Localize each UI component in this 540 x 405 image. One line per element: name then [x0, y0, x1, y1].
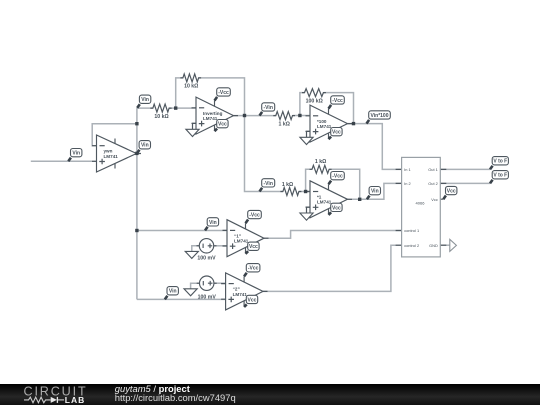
net flag Vin at U4 output	[367, 187, 381, 200]
op-amp U3 x100 LM741	[306, 105, 353, 142]
svg-text:100 mV: 100 mV	[198, 294, 217, 300]
resistor R1 10 kOhm	[150, 104, 171, 120]
ground at U4 + input	[300, 207, 313, 220]
op-amp U4 x1 LM741	[306, 181, 353, 218]
svg-text:LM741: LM741	[104, 154, 119, 159]
net flag Vin at U1 input	[68, 149, 82, 162]
svg-text:In 2: In 2	[404, 181, 411, 186]
svg-text:Vcc: Vcc	[431, 197, 438, 202]
svg-text:-Vin: -Vin	[264, 181, 273, 187]
IC U7 4066 quad bilateral switch	[396, 157, 447, 257]
svg-text:Vin: Vin	[209, 220, 217, 226]
svg-text:V to F: V to F	[493, 173, 507, 179]
svg-text:Vin*100: Vin*100	[371, 113, 389, 119]
resistor R4 100 kOhm feedback	[302, 89, 326, 105]
svg-text:Vin: Vin	[141, 143, 149, 149]
svg-text:10 kΩ: 10 kΩ	[184, 84, 198, 90]
svg-text:LM741: LM741	[234, 239, 249, 244]
svg-text:-Vin: -Vin	[264, 105, 273, 111]
svg-text:1 kΩ: 1 kΩ	[315, 159, 326, 165]
ground at U2 + input	[186, 123, 199, 136]
svg-text:LM741: LM741	[233, 292, 248, 297]
op-amp U6 comparator 2 LM741	[221, 273, 267, 310]
net flag -Vcc at U5 V- pin	[246, 210, 262, 223]
wire R1 to U2 - input	[169, 107, 196, 109]
svg-text:Vcc: Vcc	[447, 189, 456, 195]
svg-text:Vin: Vin	[72, 151, 80, 157]
wire U6 output to 4066 control 2	[263, 245, 402, 291]
wire U2 output to R3	[234, 115, 276, 117]
wire U2 - input up to feedback R2	[176, 78, 183, 108]
wire R6 to U4 output node	[329, 169, 360, 199]
voltage source V1 100 mV	[197, 239, 217, 262]
svg-text:4066: 4066	[416, 201, 426, 206]
wire U4 output to 4066 In 2	[347, 183, 401, 199]
net flag -Vin at U2 output	[260, 103, 275, 116]
ground at U3 + input	[300, 131, 313, 144]
svg-text:Out 2: Out 2	[428, 181, 438, 186]
svg-text:10 kΩ: 10 kΩ	[154, 114, 168, 120]
svg-text:Vcc: Vcc	[332, 130, 341, 136]
svg-text:-Vcc: -Vcc	[332, 98, 343, 104]
wire 4066 Out 2 to V to F flag	[440, 182, 490, 184]
node U2 - input junction	[174, 106, 177, 109]
net flag Vin at R1 input	[137, 95, 151, 108]
svg-text:100 kΩ: 100 kΩ	[306, 98, 323, 104]
svg-text:-Vcc: -Vcc	[249, 213, 260, 219]
wire U5 output to 4066 control 1	[264, 231, 402, 239]
svg-text:Vcc: Vcc	[332, 205, 341, 211]
wire Vin bus to U6 + input	[137, 298, 226, 300]
wire U4 - input up to feedback R6	[306, 169, 312, 191]
svg-text:1 kΩ: 1 kΩ	[279, 121, 290, 127]
wire U1 feedback output to - input	[92, 124, 137, 146]
net flag Vcc at 4066 Vcc pin	[443, 186, 457, 199]
svg-text:-Vcc: -Vcc	[248, 266, 259, 272]
op-amp U1 ywn LM741 buffer	[92, 135, 141, 172]
svg-text:Vcc: Vcc	[249, 244, 258, 250]
resistor R6 1 kOhm feedback	[310, 159, 332, 173]
node U3 output junction	[352, 122, 355, 125]
ground at V1	[185, 251, 198, 258]
svg-text:Vin: Vin	[141, 97, 149, 103]
wire R5 to U4 - input	[299, 191, 310, 193]
op-amp U2 Inverting LM741	[192, 97, 239, 134]
net flag Vin at U5 - input	[205, 218, 219, 231]
net flag V to F at Out 2	[490, 171, 508, 184]
resistor R2 10 kOhm feedback	[180, 74, 201, 90]
svg-text:Vcc: Vcc	[218, 122, 227, 128]
net flag -Vcc at U6 V- pin	[244, 264, 260, 277]
svg-text:Vcc: Vcc	[248, 297, 257, 303]
svg-text:1 kΩ: 1 kΩ	[282, 182, 293, 188]
wire bus top to R1	[137, 107, 153, 109]
node Vin bus to U5 junction	[135, 229, 138, 232]
wire R3 to U3 - input	[293, 115, 311, 117]
node U1 output junction	[135, 152, 138, 155]
svg-text:LAB: LAB	[65, 395, 85, 405]
resistor R3 1 kOhm	[273, 112, 295, 128]
op-amp U5 comparator 1 LM741	[223, 220, 269, 257]
svg-text:-Vcc: -Vcc	[332, 174, 343, 180]
svg-text:LM741: LM741	[317, 124, 332, 129]
node U4 output junction	[358, 198, 361, 201]
resistor R5 1 kOhm	[280, 182, 301, 196]
net flag Vin at U6 + input	[165, 287, 179, 300]
svg-text:http://circuitlab.com/cw7497q: http://circuitlab.com/cw7497q	[115, 392, 236, 403]
node U1 feedback junction	[135, 122, 138, 125]
voltage source V2 100 mV	[197, 276, 217, 300]
net flag -Vin at U4 input	[260, 179, 275, 192]
wire U3 - input up to feedback R4	[300, 93, 305, 116]
net flag Vcc at U6 V+ pin	[244, 295, 258, 307]
wire R2 to U2 output node	[199, 78, 245, 116]
footer bar	[0, 384, 540, 405]
svg-text:LM741: LM741	[203, 116, 218, 121]
svg-text:GND: GND	[429, 243, 438, 248]
node U3 - input junction	[298, 114, 301, 117]
wire 4066 Out 1 to V to F flag	[440, 168, 490, 170]
wire Vin bus to U5 - input	[137, 230, 227, 232]
net flag Vcc at U3 V+ pin	[329, 128, 343, 140]
wire V1 - terminal to ground	[192, 246, 200, 252]
svg-text:Out 1: Out 1	[428, 167, 438, 172]
node U2 output junction	[243, 114, 246, 117]
svg-text:control 1: control 1	[404, 228, 419, 233]
wire U3 output to 4066 In 1	[348, 124, 402, 170]
wire V1 + terminal to U5 + input	[214, 245, 227, 247]
wire V2 + terminal to U6 - input	[214, 282, 226, 284]
ground at V2	[184, 289, 197, 296]
net flag Vin at U1 output	[137, 141, 151, 154]
wire V2 - terminal to ground	[191, 283, 200, 289]
wire R4 to U3 output node	[323, 93, 353, 124]
ground arrow at 4066 GND pin	[450, 239, 457, 251]
net flag V to F at Out 1	[490, 157, 508, 170]
wire U2 output down to R5	[245, 116, 283, 192]
net flag Vcc at U2 V+ pin	[215, 120, 229, 132]
net flag -Vcc at U3 V- pin	[329, 96, 345, 109]
svg-text:V to F: V to F	[493, 159, 507, 165]
wire main vertical Vin bus	[136, 108, 138, 299]
svg-text:-Vcc: -Vcc	[218, 90, 229, 96]
svg-text:control 2: control 2	[404, 243, 419, 248]
wire Vin input to op-amp U1 + input	[31, 160, 97, 162]
svg-text:In 1: In 1	[404, 167, 411, 172]
node U4 - input junction	[304, 190, 307, 193]
net flag Vcc at U5 V+ pin	[246, 242, 260, 254]
net flag -Vcc at U4 V- pin	[329, 172, 345, 185]
wire 4066 GND pin to ground arrow	[440, 244, 450, 246]
svg-text:Vin: Vin	[371, 189, 379, 195]
net flag Vin*100 at U3 output	[367, 111, 391, 124]
net flag Vcc at U4 V+ pin	[329, 203, 343, 215]
svg-text:100 mV: 100 mV	[197, 256, 216, 262]
net flag -Vcc at U2 V- pin	[215, 88, 231, 101]
svg-text:LM741: LM741	[317, 200, 332, 205]
svg-text:Vin: Vin	[169, 289, 177, 295]
